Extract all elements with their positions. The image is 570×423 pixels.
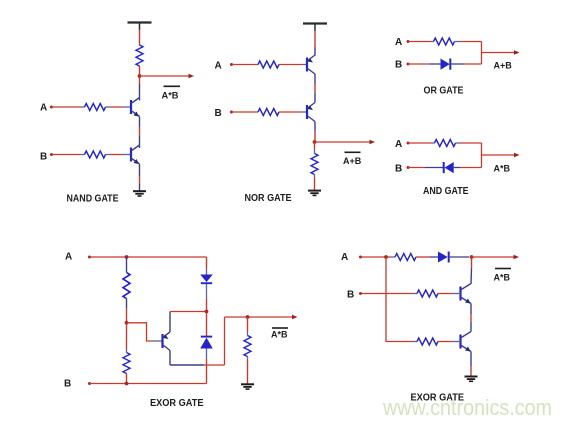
wire AND output: [482, 154, 518, 156]
transistor Q2 (EXOR2, NPN): [457, 332, 472, 352]
ground (NAND): [133, 191, 146, 196]
resistor R1 (EXOR1 upper): [123, 257, 130, 298]
power V+ (NAND): [128, 23, 152, 31]
wire node to Q1 collector: [139, 84, 141, 101]
wire Q1 collector to Q2 emitter: [314, 74, 316, 103]
wire box bottom (EXOR1): [170, 364, 225, 366]
arrowhead EXOR1 output: [292, 315, 298, 319]
wire lead to Q1 base: [153, 340, 163, 342]
resistor R1 (NAND pull-up): [136, 45, 143, 66]
wire Q2 emitter to ground: [139, 164, 141, 191]
node NAND output junction: [138, 74, 142, 78]
resistor R3 (NAND input B): [81, 151, 110, 158]
resistor R1 (EXOR2 row A): [390, 254, 438, 261]
wire R3 to Q2 base: [110, 154, 131, 156]
svg-text:A*B: A*B: [271, 330, 288, 340]
wire Q2 collector to output node: [314, 122, 316, 143]
node junction base (EXOR1): [125, 321, 129, 325]
ground (EXOR2): [465, 377, 478, 382]
power V+ (NOR): [303, 24, 327, 32]
overline bar (NOR A+B): [345, 151, 361, 153]
ground (EXOR1): [241, 384, 254, 389]
diode D2 (EXOR1, pointing up): [200, 337, 213, 349]
transistor Q1 (EXOR2, NPN): [457, 284, 472, 304]
svg-text:www.cntronics.com: www.cntronics.com: [382, 395, 552, 420]
wire B input (AND): [408, 167, 443, 169]
resistor R2 (NOR input B): [258, 109, 279, 116]
wire A rail (EXOR1): [90, 256, 207, 258]
wire NAND output: [140, 75, 192, 77]
wire D1 to output junction: [450, 256, 469, 258]
svg-text:A+B: A+B: [494, 60, 513, 70]
wire mid junction down to D2: [206, 312, 208, 337]
svg-text:A: A: [395, 139, 402, 150]
svg-text:A*B: A*B: [494, 273, 511, 283]
wire OR output: [482, 52, 518, 54]
arrowhead OR output: [514, 50, 520, 54]
overline bar (EXOR2 A*B): [495, 268, 511, 270]
node NOR output junction: [313, 140, 317, 144]
wire A corner down to D1: [206, 257, 208, 275]
resistor R3 (NOR pull-down): [311, 142, 318, 175]
wire R1 to output node: [139, 66, 141, 84]
transistor Q1 (EXOR1, PNP): [163, 332, 171, 351]
arrowhead NOR output: [370, 140, 376, 144]
wire NOR output: [315, 141, 373, 143]
node B start dot (EXOR1): [88, 382, 91, 385]
node junction B/R2 (EXOR1): [125, 382, 129, 386]
svg-text:B: B: [64, 379, 71, 390]
svg-text:A: A: [215, 60, 222, 71]
svg-text:A: A: [395, 37, 402, 48]
wire OR combining vertical: [481, 42, 483, 65]
wire output junction down to Q1 collector: [470, 257, 473, 284]
node B start dot (OR): [407, 63, 410, 66]
node B start dot (NAND): [50, 153, 53, 156]
resistor R2 (NAND input A): [81, 104, 110, 111]
wire D1 to corner: [451, 63, 481, 65]
svg-text:B: B: [215, 108, 222, 119]
wire A input (EXOR2): [361, 256, 391, 258]
wire Q1 emitter down to box bottom: [169, 351, 171, 366]
wire Q2 emitter to ground: [470, 352, 472, 377]
transistor Q1 (NAND, NPN): [131, 98, 140, 117]
svg-text:OR GATE: OR GATE: [424, 86, 464, 97]
resistor R1 (NOR input A): [258, 61, 279, 68]
node junction A/branch (EXOR2): [384, 255, 388, 259]
node A start dot (EXOR1): [88, 256, 91, 259]
wire EXOR2 output: [472, 256, 517, 258]
node mid junction (EXOR1): [205, 310, 209, 314]
wire A input (NAND): [52, 106, 82, 108]
transistor Q1 (NOR, PNP): [307, 55, 315, 74]
node A start dot (AND): [407, 142, 410, 145]
wire B rail (EXOR1): [90, 383, 207, 385]
wire base step to Q1: [127, 323, 153, 341]
wire V+ to Q1 emitter: [314, 31, 316, 56]
wire A input (OR): [408, 41, 431, 43]
svg-text:NOR GATE: NOR GATE: [245, 193, 292, 204]
svg-text:AND GATE: AND GATE: [423, 186, 469, 197]
overline bar (EXOR1 A*B): [272, 327, 288, 329]
wire Q1 emitter to Q2 collector: [139, 117, 141, 149]
diode D1 (EXOR2, pointing right): [438, 252, 449, 263]
node A start dot (NOR): [230, 63, 233, 66]
svg-text:B: B: [395, 164, 402, 175]
wire R2 to Q2 base: [279, 111, 307, 113]
svg-text:EXOR GATE: EXOR GATE: [150, 398, 204, 409]
node A start dot (EXOR2): [359, 256, 362, 259]
resistor R2 (EXOR2 row B): [413, 290, 457, 297]
transistor Q2 (NAND, NPN): [131, 145, 140, 164]
wire box top (EXOR1): [170, 311, 207, 313]
svg-text:B: B: [395, 60, 402, 71]
arrowhead NAND output: [189, 74, 195, 78]
wire D1 to mid junction: [206, 284, 208, 312]
node junction output/R3 (EXOR1): [246, 315, 250, 319]
svg-text:B: B: [40, 151, 47, 162]
wire R1 to base node: [126, 299, 128, 323]
wire D2 to B rail: [206, 349, 208, 384]
wire V+ to R1: [139, 30, 141, 46]
node junction A/R1 (EXOR1): [125, 255, 129, 259]
diode D1 (EXOR1, pointing down): [200, 275, 213, 284]
diode D1 (OR input B): [441, 59, 451, 70]
wire R1 to Q1 base: [279, 64, 307, 66]
wire output riser (EXOR1): [224, 317, 226, 365]
node B start dot (EXOR2): [359, 292, 362, 295]
wire A input (NOR): [232, 64, 259, 66]
svg-text:B: B: [347, 290, 354, 301]
arrowhead EXOR2 output: [514, 255, 520, 259]
wire B input (NOR): [232, 111, 259, 113]
resistor R1 (AND input A): [432, 140, 460, 147]
wire B input (OR): [408, 63, 441, 65]
resistor R2 (EXOR1 lower): [123, 323, 130, 384]
wire A branch riser (EXOR2): [386, 257, 413, 342]
resistor R1 (OR input A): [431, 38, 461, 45]
wire B input (EXOR2): [361, 293, 414, 295]
node A start dot (NAND): [50, 106, 53, 109]
wire B input (NAND): [52, 154, 82, 156]
resistor R3 (EXOR2 row A lower): [413, 338, 457, 345]
wire EXOR1 output: [225, 316, 296, 318]
wire R2 to Q1 base: [110, 106, 131, 108]
transistor Q2 (NOR, PNP): [307, 103, 315, 122]
wire A input (AND): [408, 142, 432, 144]
svg-text:A: A: [65, 252, 72, 263]
wire Q1 emitter to Q2 collector: [470, 304, 472, 332]
wire R1 to corner: [461, 41, 482, 43]
node B start dot (NOR): [230, 111, 233, 114]
ground (NOR): [308, 191, 321, 196]
svg-text:NAND GATE: NAND GATE: [67, 194, 119, 205]
svg-text:A*B: A*B: [162, 91, 180, 101]
svg-text:A+B: A+B: [343, 156, 362, 166]
svg-text:A*B: A*B: [494, 164, 511, 174]
arrowhead AND output: [514, 153, 520, 157]
wire Q1 collector up to box top: [169, 312, 171, 333]
wire AND combining vertical: [481, 143, 483, 168]
svg-text:A: A: [40, 103, 47, 114]
node A start dot (OR): [407, 40, 410, 43]
resistor R3 (EXOR1 output): [244, 317, 251, 357]
overline bar (NAND A*B): [164, 85, 181, 87]
wire R3 to ground: [247, 357, 249, 384]
wire R3 to ground: [314, 175, 316, 191]
svg-text:A: A: [341, 252, 348, 263]
wire R1 to corner: [460, 142, 482, 144]
diode D1 (AND input B, cathode left): [444, 162, 454, 173]
node B start dot (AND): [407, 166, 410, 169]
wire D1 to corner: [454, 167, 482, 169]
node junction output (EXOR2): [470, 255, 474, 259]
